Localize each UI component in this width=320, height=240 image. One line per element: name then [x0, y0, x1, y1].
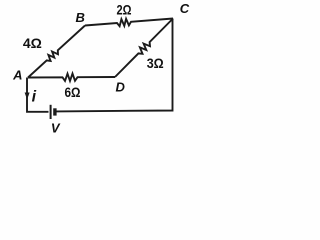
svg-text:i: i	[32, 89, 37, 106]
svg-text:D: D	[116, 80, 126, 95]
svg-text:6Ω: 6Ω	[65, 84, 81, 100]
svg-text:B: B	[76, 10, 85, 25]
svg-text:4Ω: 4Ω	[23, 35, 42, 51]
svg-text:V: V	[51, 121, 61, 136]
svg-text:2Ω: 2Ω	[117, 1, 132, 17]
svg-text:3Ω: 3Ω	[147, 55, 164, 71]
svg-text:A: A	[12, 68, 22, 83]
svg-text:C: C	[180, 1, 190, 16]
